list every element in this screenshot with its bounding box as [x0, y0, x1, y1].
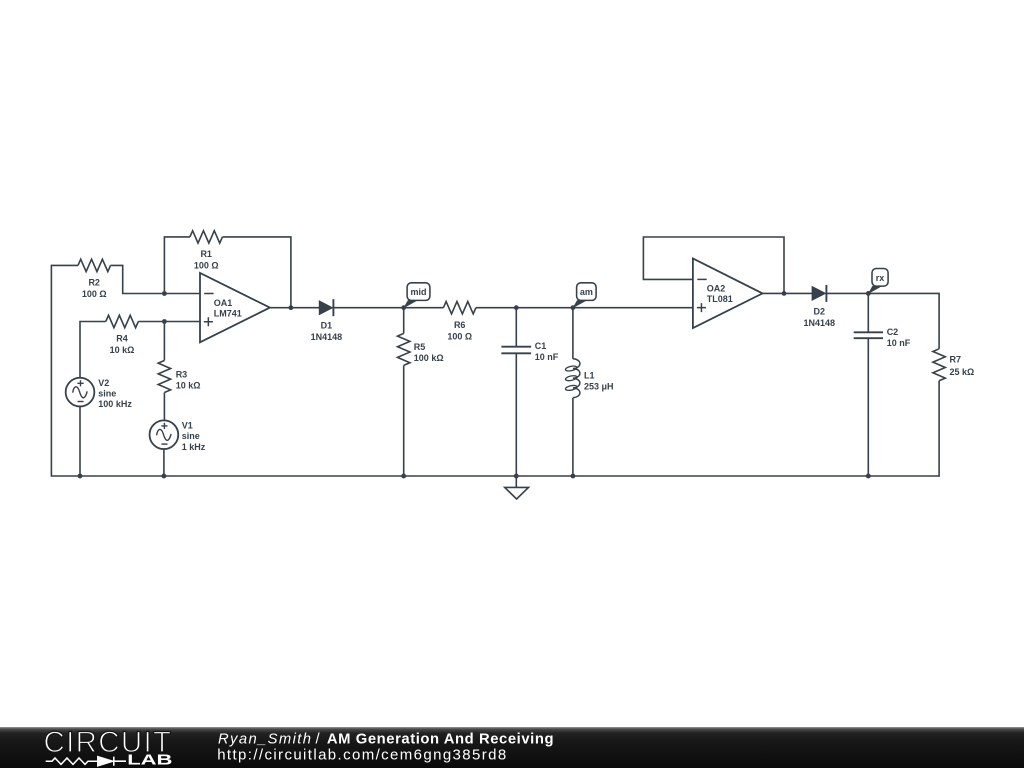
- svg-text:100 kHz: 100 kHz: [98, 399, 132, 409]
- voltage source V1 sine 1 kHz: [150, 420, 206, 451]
- svg-text:10 kΩ: 10 kΩ: [110, 345, 135, 355]
- junction: [571, 474, 576, 479]
- svg-text:am: am: [580, 287, 593, 297]
- svg-text:AM Generation And Receiving: AM Generation And Receiving: [327, 732, 554, 748]
- junction: [162, 319, 167, 324]
- svg-text:R2: R2: [88, 278, 100, 288]
- junction: [571, 305, 576, 310]
- svg-text:TL081: TL081: [707, 294, 733, 304]
- junction: [514, 305, 519, 310]
- wire: D2 cathode to node rx: [826, 292, 868, 294]
- resistor R7 25kΩ: [933, 349, 974, 381]
- svg-text:D2: D2: [813, 306, 825, 316]
- wire: node mid down to R5: [403, 308, 405, 334]
- svg-text:100 kΩ: 100 kΩ: [414, 353, 444, 363]
- resistor R4 10kΩ: [106, 315, 139, 355]
- capacitor C2 10nF: [854, 293, 911, 476]
- wire: R2 right to OA1 inverting input: [110, 265, 200, 293]
- op-amp OA1 LM741: [200, 273, 270, 342]
- wire: OA1 output to D1 anode: [270, 307, 319, 309]
- svg-text:100 Ω: 100 Ω: [447, 331, 472, 341]
- wire: V2 top to R4 left: [80, 322, 106, 378]
- resistor R6 100Ω: [443, 302, 476, 342]
- junction: [289, 305, 294, 310]
- node rx flag: [868, 269, 888, 295]
- svg-text:10 nF: 10 nF: [535, 352, 559, 362]
- node am flag: [572, 283, 596, 309]
- resistor R2 100Ω: [78, 259, 111, 299]
- svg-text:R5: R5: [414, 342, 426, 352]
- svg-text:1N4148: 1N4148: [311, 332, 343, 342]
- resistor R5 100kΩ: [398, 333, 444, 365]
- svg-text:D1: D1: [321, 321, 333, 331]
- svg-text:253 μH: 253 μH: [584, 381, 614, 391]
- capacitor C1 10nF: [501, 308, 558, 476]
- junction: [866, 291, 871, 296]
- junction: [162, 291, 167, 296]
- junction: [401, 474, 406, 479]
- wire: R5 bottom to ground rail: [403, 365, 405, 476]
- diode D2 1N4148: [803, 285, 835, 328]
- wire: non-inverting node down to R3: [163, 322, 165, 361]
- svg-text:rx: rx: [876, 273, 885, 283]
- wire: left rail from R2 down and bottom ground rail: [51, 265, 939, 476]
- junction: [162, 474, 167, 479]
- svg-text:R6: R6: [454, 320, 466, 330]
- svg-text:25 kΩ: 25 kΩ: [950, 367, 975, 377]
- svg-text:C1: C1: [535, 341, 547, 351]
- wire: V1 bottom to ground rail: [163, 449, 165, 476]
- wire: node rx to R7 top: [868, 293, 939, 348]
- svg-text:R1: R1: [200, 249, 212, 259]
- wire: R6 right through C1 node to node am and OA2 non-inverting input: [476, 307, 693, 309]
- svg-text:1 kHz: 1 kHz: [182, 442, 206, 452]
- wire: D1 cathode to node mid: [333, 307, 443, 309]
- svg-text:L1: L1: [584, 370, 595, 380]
- footer bar: [0, 727, 1024, 768]
- wire: R3 to V1 top: [163, 393, 165, 421]
- junction: [782, 291, 787, 296]
- svg-text:100 Ω: 100 Ω: [194, 261, 219, 271]
- svg-text:OA2: OA2: [707, 283, 726, 293]
- svg-text:V2: V2: [98, 378, 109, 388]
- svg-text:100 Ω: 100 Ω: [82, 289, 107, 299]
- junction: [401, 305, 406, 310]
- svg-text:LM741: LM741: [214, 309, 242, 319]
- svg-text:OA1: OA1: [214, 298, 233, 308]
- svg-text:R3: R3: [176, 369, 188, 379]
- svg-text:1N4148: 1N4148: [803, 318, 835, 328]
- diode D1 1N4148: [311, 299, 343, 342]
- junction: [514, 474, 519, 479]
- svg-text:10 kΩ: 10 kΩ: [176, 381, 201, 391]
- CircuitLab logo resistor-diode symbol: [46, 757, 126, 766]
- svg-text:http://circuitlab.com/cem6gng3: http://circuitlab.com/cem6gng385rd8: [217, 747, 506, 764]
- svg-text:sine: sine: [98, 389, 116, 399]
- svg-text:V1: V1: [182, 420, 193, 430]
- svg-text:Ryan_Smith: Ryan_Smith: [218, 732, 311, 748]
- op-amp OA2 TL081: [693, 258, 763, 328]
- svg-text:10 nF: 10 nF: [887, 338, 911, 348]
- svg-text:C2: C2: [887, 327, 899, 337]
- svg-text:LAB: LAB: [127, 751, 172, 767]
- wire: R1 left lead down to inverting node: [164, 237, 190, 294]
- ground symbol: [505, 476, 529, 499]
- wire: R7 bottom to ground rail: [938, 381, 940, 477]
- svg-text:R4: R4: [116, 334, 128, 344]
- node mid flag: [403, 283, 430, 309]
- svg-text:R7: R7: [950, 355, 962, 365]
- voltage source V2 sine 100 kHz: [66, 378, 133, 409]
- junction: [866, 474, 871, 479]
- wire: V2 bottom to ground rail: [79, 407, 81, 477]
- inductor L1 253 µH: [565, 308, 613, 476]
- svg-text:mid: mid: [410, 287, 426, 297]
- wire: R4 right to OA1 non-inverting input: [138, 321, 200, 323]
- resistor R3 10kΩ: [158, 361, 200, 393]
- resistor R1 100Ω (feedback): [190, 231, 223, 271]
- wire: OA2 output to D2 anode: [763, 292, 813, 294]
- junction: [78, 474, 83, 479]
- wire: R1 right lead down to OA1 output: [222, 237, 290, 308]
- svg-text:sine: sine: [182, 431, 200, 441]
- wire: OA2 feedback loop (output to inverting input): [643, 237, 784, 293]
